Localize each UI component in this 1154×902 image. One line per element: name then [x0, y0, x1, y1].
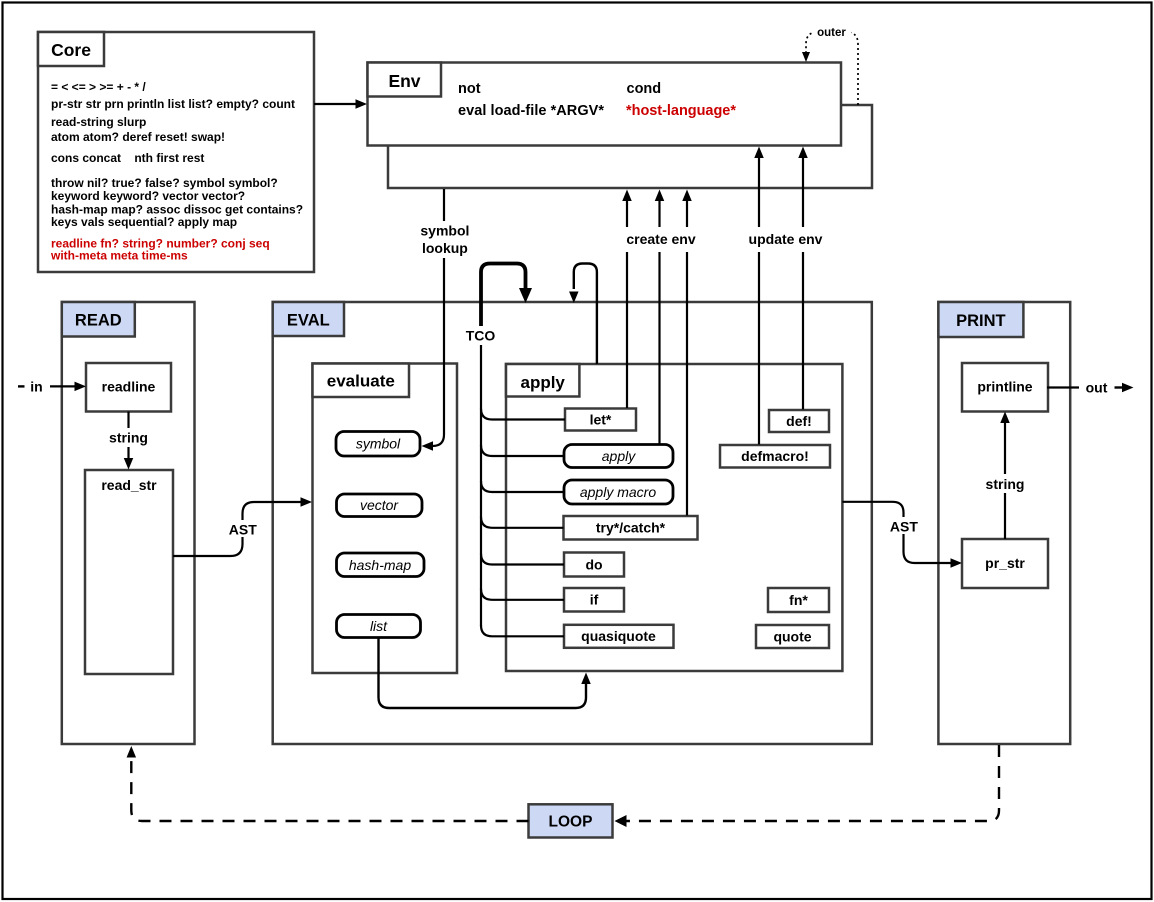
svg-text:vector: vector: [360, 497, 399, 513]
svg-text:AST: AST: [890, 519, 918, 535]
svg-text:fn*: fn*: [789, 592, 808, 608]
wire PRINT to LOOP dashed: [615, 745, 1000, 827]
svg-text:PRINT: PRINT: [956, 312, 1006, 330]
svg-text:def!: def!: [786, 413, 812, 429]
svg-text:throw nil? true? false? symbol: throw nil? true? false? symbol symbol?: [51, 176, 278, 190]
svg-text:apply: apply: [520, 373, 565, 392]
svg-text:LOOP: LOOP: [549, 814, 593, 831]
svg-text:EVAL: EVAL: [287, 312, 330, 330]
svg-text:string: string: [986, 476, 1025, 492]
wire stdout out arrow: [1047, 380, 1134, 396]
box symbol: [336, 432, 420, 457]
svg-text:list: list: [370, 618, 388, 634]
wire apply-top thin loop arrow: [569, 264, 597, 365]
label create env: [620, 227, 701, 252]
svg-text:string: string: [109, 430, 148, 446]
box def!: [769, 410, 829, 432]
wire Core to Env arrow: [314, 99, 367, 109]
label TCO: [463, 326, 498, 344]
box read_str: [85, 470, 173, 674]
svg-text:lookup: lookup: [422, 240, 468, 256]
wire stdin in arrow: [18, 379, 86, 395]
wire TCO trunk: [480, 345, 482, 626]
svg-text:not: not: [458, 81, 481, 97]
svg-text:cons concat nth first rest: cons concat nth first rest: [51, 151, 204, 165]
svg-text:let*: let*: [590, 412, 612, 428]
box do: [564, 553, 624, 577]
svg-text:pr_str: pr_str: [985, 555, 1025, 571]
box PRINT container: [938, 302, 1070, 744]
box apply italic: [564, 445, 673, 468]
label AST right: [887, 517, 921, 535]
svg-text:keyword keyword? vector vector: keyword keyword? vector vector?: [51, 189, 245, 203]
svg-text:do: do: [585, 557, 602, 573]
box Env outer shadow rect: [388, 105, 872, 188]
svg-text:quote: quote: [773, 629, 811, 645]
box vector: [337, 494, 423, 517]
svg-text:keys vals sequential? apply ma: keys vals sequential? apply map: [51, 215, 237, 229]
wire TCO branches to special forms: [481, 409, 565, 637]
label symbol lookup: [416, 221, 474, 258]
wire read_str AST to evaluate: [173, 497, 312, 556]
box quasiquote: [564, 625, 674, 648]
svg-text:in: in: [30, 379, 42, 395]
wire TCO thick loop arrow: [481, 264, 532, 333]
svg-text:evaluate: evaluate: [327, 372, 395, 391]
box EVAL container: [273, 302, 872, 744]
svg-text:symbol: symbol: [356, 436, 401, 452]
box Core with function list: [38, 32, 314, 272]
box if: [564, 588, 624, 612]
svg-text:update env: update env: [749, 231, 823, 247]
svg-text:= < <= > >= + - * /: = < <= > >= + - * /: [51, 80, 146, 94]
wire apply AST to pr_str: [842, 502, 962, 568]
box apply macro: [564, 480, 673, 504]
svg-text:cond: cond: [627, 81, 662, 97]
svg-text:hash-map: hash-map: [349, 557, 411, 573]
svg-text:Env: Env: [388, 71, 420, 91]
box let*: [565, 409, 636, 431]
wire create env arrows: [622, 190, 692, 516]
svg-text:symbol: symbol: [420, 223, 469, 239]
svg-text:with-meta meta time-ms: with-meta meta time-ms: [50, 249, 188, 263]
label string READ: [103, 428, 154, 447]
wire list to apply bottom arrow: [379, 638, 591, 709]
box evaluate container: [313, 364, 458, 674]
svg-text:pr-str str prn println list li: pr-str str prn println list list? empty?…: [51, 97, 295, 111]
svg-text:quasiquote: quasiquote: [581, 628, 656, 644]
svg-text:printline: printline: [977, 379, 1032, 395]
svg-text:Core: Core: [51, 40, 91, 60]
box list: [337, 615, 421, 638]
box quote: [756, 625, 829, 648]
svg-text:read_str: read_str: [101, 477, 157, 493]
dotted outer-env arrow with label outer: [802, 22, 858, 105]
svg-text:if: if: [590, 592, 599, 608]
wire pr_str to printline: [1000, 412, 1010, 540]
box readline: [86, 363, 171, 412]
box fn*: [768, 588, 829, 612]
box pr_str: [962, 539, 1048, 588]
box READ container: [62, 302, 195, 744]
svg-text:READ: READ: [75, 312, 122, 330]
box apply container: [506, 364, 842, 671]
box try*/catch*: [564, 516, 698, 540]
wire symbol lookup Env to symbol: [422, 189, 445, 451]
wire readline to read_str: [124, 412, 134, 470]
box Env with text: [368, 63, 842, 146]
svg-text:defmacro!: defmacro!: [741, 448, 809, 464]
svg-text:TCO: TCO: [466, 328, 496, 344]
svg-text:out: out: [1086, 380, 1108, 396]
wire update env arrows: [754, 147, 808, 445]
svg-text:atom atom? deref reset! swap!: atom atom? deref reset! swap!: [51, 130, 225, 144]
svg-text:AST: AST: [229, 522, 257, 538]
label string PRINT: [980, 474, 1030, 493]
label update env: [743, 227, 828, 252]
wire LOOP to READ dashed: [127, 746, 529, 821]
svg-text:eval load-file *ARGV*: eval load-file *ARGV*: [458, 103, 604, 119]
box hash-map: [337, 553, 425, 577]
box defmacro!: [720, 445, 830, 468]
svg-text:read-string slurp: read-string slurp: [51, 115, 146, 129]
svg-text:create env: create env: [626, 231, 695, 247]
label AST left: [226, 520, 260, 538]
svg-text:outer: outer: [817, 27, 846, 39]
svg-text:*host-language*: *host-language*: [626, 103, 736, 119]
svg-text:apply: apply: [602, 448, 636, 464]
svg-text:apply macro: apply macro: [580, 484, 656, 500]
svg-text:readline: readline: [102, 379, 156, 395]
box printline: [962, 363, 1048, 412]
box LOOP: [529, 804, 613, 837]
svg-text:try*/catch*: try*/catch*: [596, 520, 666, 536]
